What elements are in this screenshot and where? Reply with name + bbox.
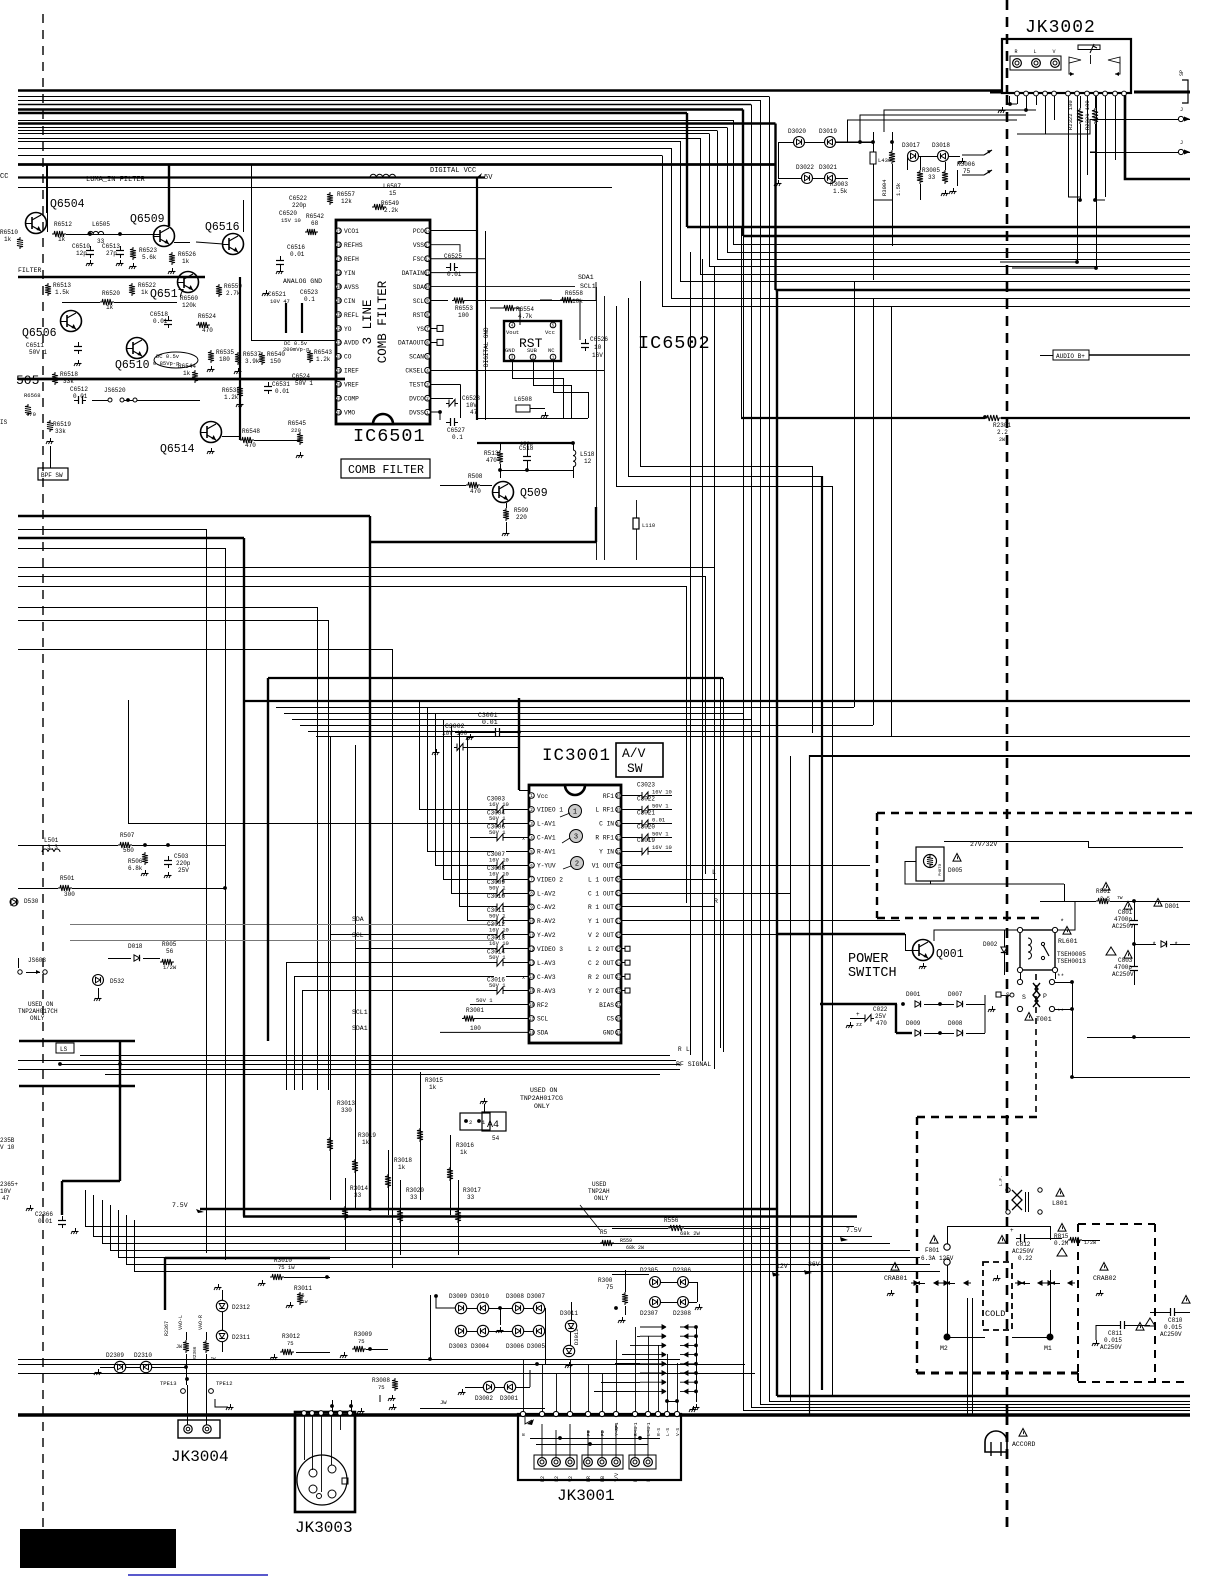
svg-text:1k: 1k: [106, 304, 114, 311]
svg-text:1k: 1k: [183, 370, 191, 377]
svg-text:JK3004: JK3004: [171, 1448, 229, 1466]
svg-text:D2312: D2312: [232, 1304, 250, 1311]
svg-text:TPE12: TPE12: [216, 1380, 233, 1387]
svg-text:R6535: R6535: [216, 349, 234, 356]
svg-text:DVCO: DVCO: [409, 396, 424, 403]
svg-text:50V 1: 50V 1: [489, 912, 506, 919]
svg-text:JS603: JS603: [28, 957, 46, 964]
svg-text:SCAN: SCAN: [409, 354, 424, 361]
svg-text:S: S: [1022, 994, 1026, 1001]
svg-text:14: 14: [425, 230, 431, 234]
svg-text:D3011: D3011: [560, 1310, 578, 1317]
svg-text:R6549: R6549: [381, 200, 399, 207]
svg-text:IC6502: IC6502: [638, 333, 711, 354]
svg-text:D3019: D3019: [819, 128, 837, 135]
svg-text:C6526: C6526: [590, 336, 608, 343]
svg-text:75: 75: [606, 1284, 614, 1291]
svg-text:C503: C503: [174, 853, 189, 860]
svg-text:DVSS: DVSS: [409, 409, 424, 416]
svg-text:0.01: 0.01: [275, 388, 290, 395]
svg-text:R3011: R3011: [294, 1285, 312, 1292]
svg-text:GND: GND: [603, 1030, 614, 1037]
svg-text:A4: A4: [487, 1120, 499, 1131]
svg-text:A/V: A/V: [622, 746, 646, 761]
svg-text:0.015: 0.015: [1104, 1337, 1122, 1344]
svg-text:32: 32: [616, 851, 622, 855]
svg-text:SCL1: SCL1: [352, 1009, 368, 1016]
svg-text:7W: 7W: [1117, 895, 1123, 901]
svg-text:TEST: TEST: [409, 382, 424, 389]
svg-text:Q6509: Q6509: [130, 213, 165, 226]
svg-text:4700p: 4700p: [1114, 916, 1132, 923]
svg-text:J: J: [1180, 140, 1183, 146]
svg-text:R2: R2: [540, 1476, 546, 1482]
svg-text:C6512: C6512: [70, 386, 88, 393]
svg-text:R6545: R6545: [288, 420, 306, 427]
svg-text:47: 47: [470, 409, 478, 416]
svg-text:75: 75: [287, 1340, 294, 1347]
svg-text:DIGITAL VCC: DIGITAL VCC: [430, 167, 476, 175]
svg-text:TSEH0005: TSEH0005: [1057, 951, 1086, 958]
svg-text:D3002: D3002: [475, 1395, 493, 1402]
svg-text:Q6510: Q6510: [115, 359, 150, 372]
svg-text:L-AV1: L-AV1: [537, 821, 556, 828]
svg-text:505: 505: [16, 373, 39, 388]
svg-text:5.6k: 5.6k: [142, 254, 157, 261]
svg-text:VREF: VREF: [344, 382, 359, 389]
svg-text:24: 24: [616, 962, 622, 966]
svg-text:27p: 27p: [106, 250, 117, 257]
svg-text:1k: 1k: [4, 236, 12, 243]
svg-text:50V 1: 50V 1: [489, 885, 506, 892]
svg-text:C810: C810: [1168, 1317, 1183, 1324]
svg-text:TSEH0013: TSEH0013: [1057, 958, 1086, 965]
svg-text:D005: D005: [948, 867, 963, 874]
svg-text:SCL1: SCL1: [580, 283, 596, 290]
svg-text:R2301: R2301: [993, 422, 1011, 429]
svg-text:R501: R501: [60, 875, 75, 882]
svg-text:C-AV2: C-AV2: [537, 904, 556, 911]
svg-text:16V 10: 16V 10: [489, 940, 509, 947]
svg-text:0.2M: 0.2M: [1054, 1240, 1069, 1247]
svg-text:Q6516: Q6516: [205, 221, 240, 234]
svg-text:D3004: D3004: [471, 1343, 489, 1350]
svg-text:4700p: 4700p: [1114, 964, 1132, 971]
svg-text:50V 1: 50V 1: [489, 982, 506, 989]
svg-text:1/2W: 1/2W: [163, 964, 177, 971]
svg-text:GND: GND: [505, 347, 516, 354]
svg-text:23: 23: [336, 342, 342, 346]
svg-text:L: L: [1033, 49, 1036, 55]
svg-text:SDA1: SDA1: [352, 1025, 368, 1032]
svg-text:33k: 33k: [55, 428, 66, 435]
svg-text:D3007: D3007: [527, 1293, 545, 1300]
svg-text:LUMA_IN FILTER: LUMA_IN FILTER: [86, 176, 146, 184]
svg-text:JW: JW: [210, 1356, 216, 1362]
svg-text:1.5k: 1.5k: [833, 188, 848, 195]
svg-text:22: 22: [336, 328, 342, 332]
svg-text:C 1 OUT: C 1 OUT: [588, 890, 614, 897]
svg-text:D2309: D2309: [106, 1352, 124, 1359]
svg-text:SDA1: SDA1: [578, 274, 594, 281]
svg-text:R2366: R2366: [192, 1346, 198, 1360]
svg-text:R6557: R6557: [337, 191, 355, 198]
svg-text:D2310: D2310: [134, 1352, 152, 1359]
svg-text:L501: L501: [44, 837, 59, 844]
svg-text:11: 11: [529, 934, 535, 938]
svg-text:R556: R556: [664, 1217, 679, 1224]
svg-text:R: R: [1014, 49, 1017, 55]
svg-text:AC250V: AC250V: [1160, 1331, 1182, 1338]
svg-text:R3009: R3009: [354, 1331, 372, 1338]
svg-text:24: 24: [336, 356, 342, 360]
svg-text:D2306: D2306: [673, 1267, 691, 1274]
svg-text:R-AV3: R-AV3: [537, 988, 556, 995]
svg-text:C6527: C6527: [447, 427, 465, 434]
svg-text:R: R: [633, 1479, 639, 1482]
svg-text:VAO-R: VAO-R: [198, 1315, 204, 1330]
svg-text:AVDD: AVDD: [344, 340, 359, 347]
svg-text:18: 18: [336, 272, 342, 276]
svg-text:0.015: 0.015: [1164, 1324, 1182, 1331]
svg-text:15: 15: [389, 190, 397, 197]
svg-text:0.1: 0.1: [304, 296, 315, 303]
svg-text:C812: C812: [1016, 1241, 1031, 1248]
svg-text:2.5: 2.5: [1100, 895, 1110, 902]
svg-text:12p: 12p: [76, 250, 87, 257]
svg-text:2.2: 2.2: [997, 429, 1008, 436]
svg-text:ONLY: ONLY: [30, 1015, 45, 1022]
svg-text:23: 23: [616, 976, 622, 980]
svg-text:IS: IS: [0, 419, 8, 426]
svg-text:75: 75: [378, 1384, 385, 1391]
svg-text:VSS: VSS: [413, 242, 424, 249]
svg-text:D801: D801: [1165, 903, 1180, 910]
svg-text:0.01: 0.01: [447, 271, 462, 278]
svg-text:D2311: D2311: [232, 1334, 250, 1341]
svg-text:D009: D009: [906, 1020, 921, 1027]
svg-text:R507: R507: [120, 832, 135, 839]
svg-text:ACCORD: ACCORD: [1012, 1441, 1036, 1448]
svg-text:M1: M1: [1044, 1345, 1052, 1352]
svg-text:D530: D530: [24, 898, 39, 905]
svg-text:zz: zz: [856, 1022, 862, 1028]
svg-text:3: 3: [574, 834, 578, 842]
svg-text:1.2k: 1.2k: [316, 356, 331, 363]
svg-text:Y 1 OUT: Y 1 OUT: [588, 918, 614, 925]
svg-text:33: 33: [928, 174, 936, 181]
svg-text:C6511: C6511: [26, 342, 44, 349]
svg-text:*: *: [1152, 942, 1156, 950]
svg-text:R6568: R6568: [24, 392, 41, 399]
svg-text:POWER: POWER: [848, 952, 889, 967]
svg-text:75 1W: 75 1W: [278, 1264, 295, 1271]
svg-text:10V: 10V: [466, 402, 477, 409]
svg-text:VMO: VMO: [344, 409, 355, 416]
svg-text:R: R: [678, 1046, 682, 1053]
svg-text:D3005: D3005: [527, 1343, 545, 1350]
svg-text:C6518: C6518: [150, 311, 168, 318]
svg-text:D007: D007: [948, 991, 963, 998]
svg-text:10V: 10V: [0, 1188, 11, 1195]
svg-text:34: 34: [616, 823, 622, 827]
svg-text:USED ON: USED ON: [28, 1001, 54, 1008]
svg-text:C-AV3: C-AV3: [537, 974, 556, 981]
svg-text:Y IN: Y IN: [599, 849, 614, 856]
svg-text:16: 16: [529, 1004, 535, 1008]
svg-text:0.01: 0.01: [73, 393, 88, 400]
svg-text:PB: PB: [600, 1430, 606, 1436]
svg-text:3 LINE: 3 LINE: [361, 299, 375, 344]
svg-text:VIDEO 2: VIDEO 2: [537, 876, 563, 883]
svg-text:DATAIN: DATAIN: [402, 270, 425, 277]
svg-text:IC6501: IC6501: [353, 426, 426, 447]
svg-text:JK3002: JK3002: [1025, 18, 1096, 38]
svg-text:PB: PB: [600, 1476, 606, 1482]
svg-text:R300: R300: [598, 1277, 613, 1284]
svg-text:R6544: R6544: [178, 363, 196, 370]
svg-text:RF1: RF1: [603, 793, 614, 800]
svg-text:V2: V2: [568, 1476, 574, 1482]
svg-text:R3006: R3006: [957, 161, 975, 168]
svg-text:28: 28: [336, 412, 342, 416]
svg-text:R RF1: R RF1: [595, 835, 614, 842]
svg-text:1k: 1k: [58, 236, 66, 243]
svg-text:25: 25: [616, 948, 622, 952]
svg-text:L: L: [646, 1479, 652, 1482]
svg-text:R559: R559: [620, 1238, 632, 1244]
svg-text:1.2k: 1.2k: [224, 394, 239, 401]
svg-text:R6518: R6518: [60, 371, 78, 378]
svg-text:R6537: R6537: [243, 351, 261, 358]
svg-text:220: 220: [516, 514, 527, 521]
svg-text:54: 54: [492, 1135, 500, 1142]
svg-text:R508: R508: [468, 473, 483, 480]
svg-text:R3020: R3020: [406, 1187, 424, 1194]
svg-text:R3008: R3008: [372, 1377, 390, 1384]
svg-text:SDA: SDA: [352, 916, 364, 923]
svg-text:x: x: [522, 975, 525, 981]
svg-text:33k: 33k: [63, 378, 74, 385]
svg-text:Y/V: Y/V: [614, 1473, 620, 1482]
svg-text:Vout: Vout: [506, 329, 519, 336]
svg-text:3.9k: 3.9k: [245, 358, 260, 365]
svg-text:C3022: C3022: [637, 795, 655, 802]
svg-text:0.01: 0.01: [153, 318, 168, 325]
svg-text:*: *: [1174, 942, 1178, 950]
svg-text:BPF SW: BPF SW: [41, 472, 63, 479]
svg-text:D3018: D3018: [932, 142, 950, 149]
svg-text:RF2: RF2: [537, 1002, 548, 1009]
svg-text:BIAS: BIAS: [599, 1002, 614, 1009]
svg-text:26: 26: [616, 934, 622, 938]
svg-text:12V: 12V: [776, 1263, 788, 1270]
svg-text:+: +: [856, 1011, 860, 1018]
svg-text:R 2 OUT: R 2 OUT: [588, 974, 614, 981]
svg-text:V 2 OUT: V 2 OUT: [588, 932, 614, 939]
svg-text:VIDEO 3: VIDEO 3: [537, 946, 563, 953]
svg-text:PCO: PCO: [413, 228, 424, 235]
svg-text:16V 10: 16V 10: [489, 871, 509, 878]
svg-text:D3022: D3022: [796, 164, 814, 171]
svg-text:R3003: R3003: [830, 181, 848, 188]
svg-text:10: 10: [594, 344, 602, 351]
svg-text:R3016: R3016: [456, 1142, 474, 1149]
svg-text:R: R: [521, 1433, 527, 1436]
svg-text:R6538: R6538: [222, 387, 240, 394]
svg-text:COMB FILTER: COMB FILTER: [348, 464, 424, 477]
svg-text:56: 56: [166, 948, 174, 955]
svg-text:YIN: YIN: [344, 270, 355, 277]
svg-text:R6526: R6526: [178, 251, 196, 258]
svg-text:27: 27: [336, 398, 342, 402]
svg-text:33: 33: [467, 1194, 475, 1201]
svg-text:Q001: Q001: [936, 948, 964, 961]
svg-text:SP: SP: [1179, 70, 1185, 76]
svg-text:L 1 OUT: L 1 OUT: [588, 876, 614, 883]
svg-text:V1 OUT: V1 OUT: [592, 862, 615, 869]
svg-text:25V: 25V: [875, 1013, 886, 1020]
svg-text:120k: 120k: [182, 302, 197, 309]
svg-text:220: 220: [291, 427, 301, 434]
svg-text:2W: 2W: [999, 437, 1005, 443]
svg-text:12k: 12k: [341, 198, 352, 205]
svg-text:R 1 OUT: R 1 OUT: [588, 904, 614, 911]
svg-text:L6508: L6508: [514, 396, 532, 403]
svg-text:16V 10: 16V 10: [489, 857, 509, 864]
svg-text:0.01: 0.01: [482, 719, 498, 726]
svg-text:D3009: D3009: [449, 1293, 467, 1300]
svg-text:R6524: R6524: [198, 313, 216, 320]
svg-text:0.01: 0.01: [290, 251, 305, 258]
svg-text:50V 1: 50V 1: [295, 380, 313, 387]
svg-text:15: 15: [336, 230, 342, 234]
svg-text:CIN: CIN: [344, 298, 355, 305]
svg-text:R6519: R6519: [53, 421, 71, 428]
svg-text:33: 33: [616, 837, 622, 841]
svg-text:R6553: R6553: [455, 305, 473, 312]
svg-text:*: *: [1060, 919, 1064, 927]
svg-text:16V: 16V: [592, 352, 603, 359]
svg-text:L.F.: L.F.: [998, 1175, 1004, 1186]
svg-text:R3018: R3018: [394, 1157, 412, 1164]
svg-text:D3001: D3001: [500, 1395, 518, 1402]
svg-text:C6521: C6521: [268, 291, 286, 298]
svg-text:Q509: Q509: [520, 487, 548, 500]
svg-text:68k 2W: 68k 2W: [626, 1245, 644, 1251]
svg-text:1.5k: 1.5k: [895, 182, 902, 196]
svg-text:AC250V: AC250V: [1012, 1248, 1034, 1255]
svg-text:V 10: V 10: [0, 1144, 15, 1151]
svg-text:C3010: C3010: [487, 893, 505, 900]
svg-text:ONLY: ONLY: [594, 1195, 609, 1202]
svg-text:12: 12: [425, 258, 431, 262]
svg-text:COLD: COLD: [985, 1309, 1005, 1319]
svg-text:SCL: SCL: [413, 298, 424, 305]
svg-text:R-AV2: R-AV2: [537, 918, 556, 925]
svg-text:26: 26: [336, 384, 342, 388]
svg-text:R506: R506: [128, 858, 143, 865]
svg-text:150: 150: [270, 358, 281, 365]
svg-text:REFL: REFL: [344, 312, 359, 319]
svg-text:2: 2: [469, 1119, 472, 1126]
svg-text:JK3003: JK3003: [295, 1519, 353, 1537]
svg-text:C801: C801: [1118, 909, 1133, 916]
svg-text:D2305: D2305: [640, 1267, 658, 1274]
svg-text:C-AV1: C-AV1: [537, 835, 556, 842]
svg-text:100: 100: [470, 1025, 481, 1032]
svg-text:R5: R5: [600, 1229, 608, 1236]
svg-text:300: 300: [64, 891, 75, 898]
svg-text:CO: CO: [344, 354, 352, 361]
svg-text:5V: 5V: [484, 174, 493, 182]
svg-text:20: 20: [336, 300, 342, 304]
svg-text:L-S: L-S: [665, 1428, 671, 1436]
svg-text:R6512: R6512: [54, 221, 72, 228]
svg-text:16V 10: 16V 10: [652, 844, 672, 851]
svg-text:DC 0.5v: DC 0.5v: [156, 353, 180, 360]
svg-text:10: 10: [425, 286, 431, 290]
svg-text:C 2 OUT: C 2 OUT: [588, 960, 614, 967]
svg-text:100: 100: [458, 312, 469, 319]
svg-text:L6505: L6505: [92, 221, 110, 228]
svg-text:TNP2AH017CG: TNP2AH017CG: [520, 1095, 563, 1102]
svg-text:C3023: C3023: [637, 782, 655, 789]
svg-text:0.85Vp-p: 0.85Vp-p: [153, 360, 179, 367]
svg-text:R509: R509: [514, 507, 529, 514]
svg-text:0.22: 0.22: [1018, 1255, 1033, 1262]
svg-text:COMP: COMP: [344, 396, 359, 403]
svg-text:D002: D002: [983, 941, 998, 948]
svg-text:CRAB01: CRAB01: [884, 1275, 908, 1282]
svg-text:JW: JW: [176, 1344, 182, 1350]
svg-text:R3014: R3014: [350, 1185, 368, 1192]
svg-text:JW: JW: [440, 1399, 447, 1406]
svg-text:USED: USED: [592, 1181, 607, 1188]
svg-text:D3017: D3017: [902, 142, 920, 149]
svg-text:CC: CC: [0, 173, 8, 181]
svg-text:**: **: [1057, 973, 1064, 980]
svg-text:L2: L2: [554, 1476, 560, 1482]
svg-text:R3013: R3013: [337, 1100, 355, 1107]
svg-text:FSC: FSC: [413, 256, 424, 263]
svg-text:JS6520: JS6520: [104, 387, 126, 394]
svg-text:10k: 10k: [572, 298, 583, 305]
svg-text:L6507: L6507: [383, 183, 401, 190]
svg-text:R6542: R6542: [306, 213, 324, 220]
svg-text:C3021: C3021: [637, 809, 655, 816]
svg-text:L: L: [686, 1046, 690, 1053]
svg-text:PR: PR: [586, 1476, 592, 1482]
svg-text:180: 180: [219, 356, 230, 363]
svg-text:Q6514: Q6514: [160, 443, 195, 456]
svg-text:R3004: R3004: [881, 179, 888, 196]
svg-text:TNP2AH: TNP2AH: [588, 1188, 610, 1195]
svg-text:AC250V: AC250V: [1112, 971, 1134, 978]
svg-text:C6523: C6523: [300, 289, 318, 296]
svg-text:NC: NC: [548, 347, 555, 354]
svg-text:10: 10: [529, 920, 535, 924]
svg-text:R3017: R3017: [463, 1187, 481, 1194]
svg-text:2.7k: 2.7k: [226, 290, 241, 297]
svg-text:12: 12: [529, 948, 535, 952]
svg-text:PHOTO: PHOTO: [939, 863, 943, 876]
svg-text:47: 47: [2, 1195, 10, 1202]
svg-text:YO: YO: [344, 326, 352, 333]
svg-text:REFHS: REFHS: [344, 242, 363, 249]
svg-text:R005: R005: [162, 941, 177, 948]
svg-text:L 2 OUT: L 2 OUT: [588, 946, 614, 953]
